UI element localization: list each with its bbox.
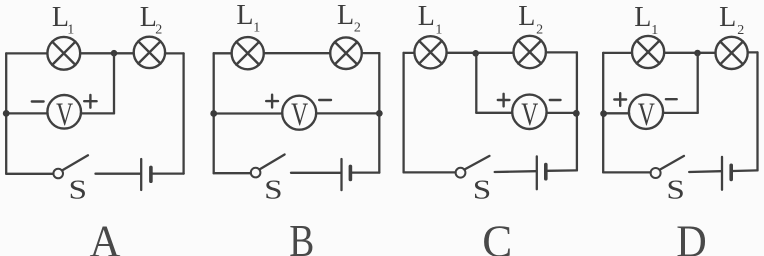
svg-text:2: 2 [155,23,162,38]
svg-text:L: L [337,0,354,31]
svg-text:L: L [418,1,435,32]
label plus (circuit C voltmeter) [498,94,510,107]
svg-text:L: L [236,0,253,31]
wire: B top segment left rail to L1 [214,52,232,54]
lamp L2 (circuit C) [514,36,546,68]
wire: D right rail [756,52,758,170]
wire: D bottom segment to switch [603,171,650,173]
label L2 (circuit A) [140,2,162,38]
wire: B switch to battery [291,172,340,174]
node: A junction between L1 and L2 [111,50,118,57]
node: C junction between L1 and L2 [472,50,479,57]
wire: B top segment L1 to L2 [264,52,330,54]
wire: B bottom segment to switch [214,172,251,174]
wire: D voltmeter branch left [603,112,629,114]
node: D left rail voltmeter tap [600,110,607,117]
node: B left rail voltmeter tap [210,110,217,117]
voltmeter V (circuit B) [282,96,316,133]
switch S (circuit B) [251,155,285,178]
svg-text:1: 1 [435,22,442,37]
wire: B battery to right rail [352,171,379,173]
label L2 (circuit C) [518,1,543,37]
lamp L1 (circuit D) [632,36,664,68]
label minus (circuit A voltmeter) [32,100,44,102]
node: A left rail voltmeter tap [3,110,10,117]
wire: D top segment left rail to L1 [603,52,632,54]
wire: C top segment L2 to right rail [546,51,577,53]
label plus (circuit B voltmeter) [266,95,278,108]
wire: A battery to right rail [153,172,184,174]
svg-text:C: C [482,215,512,256]
wire: D switch to battery [689,170,721,173]
switch S (circuit A) [53,155,88,178]
wire: A bottom segment to switch [6,173,53,175]
switch S (circuit D) [651,156,684,178]
svg-text:V: V [291,97,308,133]
wire: A top segment L2 to right rail [165,52,184,54]
wire: C bottom segment to switch [404,171,456,173]
wire: C left rail [402,53,404,172]
svg-text:2: 2 [737,23,744,38]
svg-text:1: 1 [253,21,260,36]
wire: C right rail [576,52,578,170]
wire: C switch to battery [495,170,536,173]
svg-text:S: S [69,175,88,205]
label plus (circuit D voltmeter) [614,93,626,106]
lamp L2 (circuit B) [330,37,362,69]
wire: D voltmeter branch right [663,112,698,114]
lamp L1 (circuit B) [232,37,264,69]
label L1 (circuit D) [634,2,658,38]
wire: C voltmeter branch horizontal left [476,112,512,114]
svg-text:2: 2 [536,22,543,37]
svg-text:2: 2 [354,21,361,36]
wire: B left rail [213,53,215,173]
svg-text:A: A [90,216,121,256]
label L2 (circuit D) [719,2,744,38]
label minus (circuit D voltmeter) [666,98,677,100]
label minus (circuit B voltmeter) [319,99,331,101]
wire: A right rail [182,53,184,173]
wire: D battery to right rail [733,169,758,172]
svg-text:D: D [676,215,707,256]
wire: B top segment L2 to right rail [362,52,380,54]
battery (circuit D) [722,157,731,190]
svg-text:1: 1 [67,23,74,38]
voltmeter V (circuit A) [47,95,81,133]
wire: C top segment L1 to L2 [447,52,514,54]
svg-text:B: B [289,215,314,256]
svg-text:S: S [264,175,283,205]
voltmeter V (circuit D) [629,95,663,133]
label L1 (circuit A) [52,2,74,38]
label L1 (circuit B) [236,0,260,36]
svg-text:L: L [518,1,535,32]
lamp L2 (circuit D) [716,37,748,69]
node: C right rail voltmeter tap [573,110,580,117]
wire: A left rail [5,53,7,173]
wire: B right rail [378,53,380,173]
svg-text:S: S [473,174,492,204]
label L2 (circuit B) [337,0,361,36]
wire: D left rail [602,53,604,172]
svg-text:V: V [521,97,538,133]
wire: D top segment L1 to L2 [664,52,715,54]
battery (circuit C) [537,156,546,189]
wire: A voltmeter branch right [81,112,114,114]
svg-text:V: V [638,97,655,133]
wire: D top segment L2 to right rail [748,51,758,53]
node: B right rail voltmeter tap [376,110,383,117]
wire: A top segment left rail to L1 [6,52,47,54]
svg-text:S: S [666,174,685,204]
lamp L1 (circuit A) [47,37,80,70]
wire: A top segment L1 to L2 [80,52,134,54]
wire: A voltmeter branch vertical up [113,53,115,113]
wire: D voltmeter branch vertical up [697,53,699,113]
node: D junction between L1 and L2 [694,50,701,57]
wire: C top segment left rail to L1 [404,52,415,54]
label L1 (circuit C) [418,1,443,37]
wire: B voltmeter branch right [316,112,379,114]
wire: A voltmeter branch left [6,112,47,114]
switch S (circuit C) [456,156,490,178]
wire: C voltmeter branch vertical from junction [475,53,477,113]
svg-text:V: V [56,97,73,133]
battery (circuit B) [342,159,351,190]
label minus (circuit C voltmeter) [550,99,561,101]
label plus (circuit A voltmeter) [84,95,96,108]
voltmeter V (circuit C) [512,95,546,133]
battery (circuit A) [141,159,151,190]
svg-text:L: L [634,2,651,33]
lamp L1 (circuit C) [414,36,446,68]
wire: A switch to battery [96,173,141,175]
wire: C battery to right rail [548,169,577,172]
svg-text:1: 1 [651,23,658,38]
svg-text:L: L [719,2,736,33]
wire: C voltmeter branch right [547,112,577,114]
wire: B voltmeter branch left [214,112,283,114]
lamp L2 (circuit A) [134,37,165,68]
